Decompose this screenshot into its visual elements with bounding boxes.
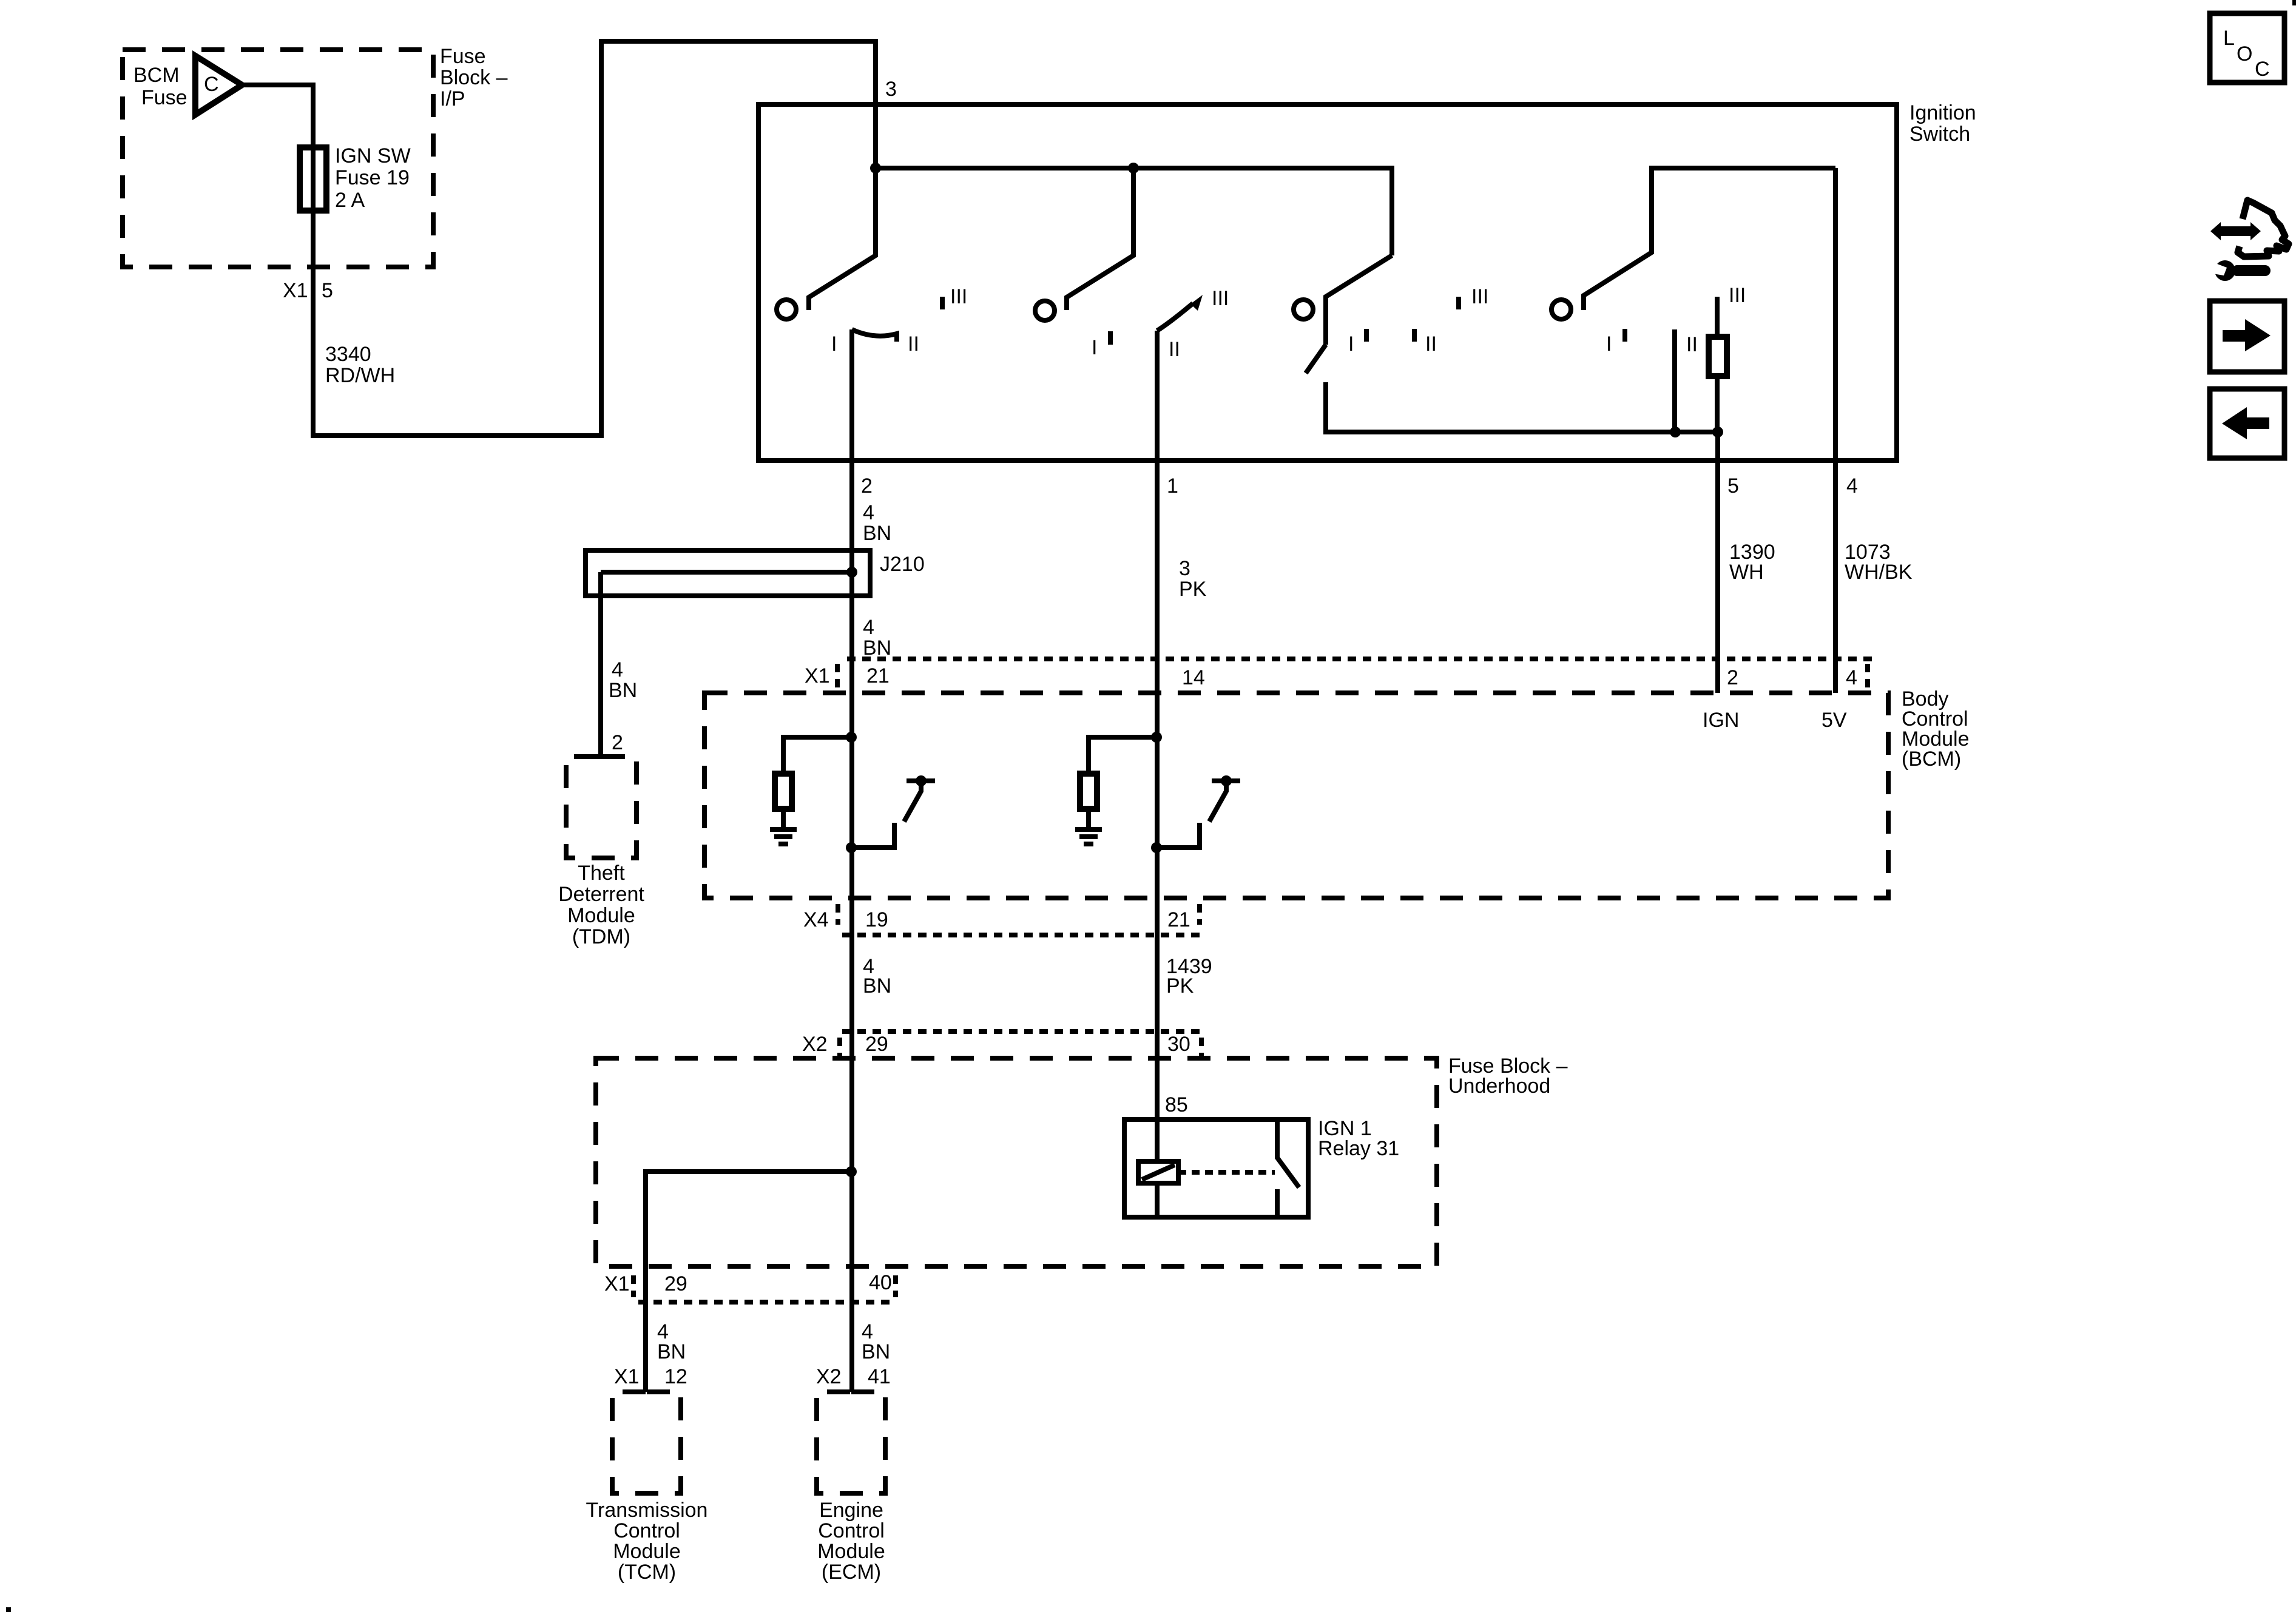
svg-text:Module: Module [613, 1540, 681, 1563]
label IGN SW Fuse 19 2 A [335, 144, 411, 212]
diagnostic icon connector outline [2238, 200, 2289, 257]
label wire 4 BN (below J210) [863, 616, 891, 660]
svg-text:3: 3 [885, 78, 897, 101]
pole 1 arm [809, 168, 876, 310]
BCM connector X4 row [842, 933, 1201, 937]
ignition switch internal bus wire [876, 168, 1392, 255]
wire ignition pin 2 down to ECM (4 BN circuit) [849, 329, 854, 1392]
fuse IGN SW Fuse 19 [300, 147, 326, 211]
BCM Fuse feed triangle C [195, 56, 242, 115]
ground BCM 1 [770, 829, 797, 844]
svg-text:(TCM): (TCM) [618, 1561, 676, 1584]
X1 fuse block bottom bracket right [893, 1275, 898, 1297]
pole 4 position II contact wire [1672, 329, 1677, 432]
svg-text:29: 29 [865, 1033, 888, 1056]
svg-text:X1: X1 [805, 664, 830, 687]
node bus-pin3 [870, 163, 881, 174]
svg-text:5V: 5V [1822, 709, 1847, 732]
svg-text:I: I [1092, 336, 1097, 359]
svg-text:Control: Control [818, 1519, 885, 1542]
svg-text:21: 21 [1167, 908, 1190, 931]
svg-text:Transmission: Transmission [586, 1499, 708, 1522]
splice pack J210 [586, 550, 870, 596]
svg-text:BN: BN [863, 636, 891, 660]
svg-text:12: 12 [664, 1365, 687, 1388]
svg-text:BCM: BCM [133, 64, 180, 87]
svg-text:Module: Module [817, 1540, 885, 1563]
X1 bracket right [1865, 664, 1870, 692]
pole 3 contact tick III [1456, 297, 1461, 309]
X2 bracket right [1199, 1038, 1204, 1058]
label wire 1390 WH [1729, 541, 1775, 584]
resistor BCM pullup 2 [1080, 774, 1097, 809]
X4 bracket left [836, 904, 840, 925]
body control module box [704, 693, 1888, 898]
svg-text:RD/WH: RD/WH [325, 364, 395, 387]
label wire 3340 RD/WH [325, 343, 395, 387]
svg-text:1: 1 [1167, 474, 1178, 498]
node J210 splice [846, 567, 857, 578]
label Engine Control Module (ECM) [817, 1499, 885, 1584]
svg-text:I: I [1348, 333, 1354, 356]
engine control module box [817, 1392, 885, 1493]
X4 bracket right [1197, 904, 1202, 925]
label Body Control Module (BCM) [1902, 687, 1970, 771]
pole 2 arm [1067, 168, 1133, 310]
pole 4 pivot [1551, 300, 1571, 319]
stray dot bottom left [6, 1607, 11, 1612]
relay actuation link (dashed) [1178, 1170, 1275, 1175]
ground BCM 2 [1075, 829, 1102, 844]
J210 internal bus bar [601, 570, 852, 575]
svg-text:IGN: IGN [1703, 709, 1739, 732]
svg-text:2: 2 [861, 474, 873, 498]
svg-text:C: C [204, 73, 219, 96]
svg-text:J210: J210 [880, 553, 925, 576]
label ECM connector X2 pin 41 [816, 1365, 891, 1388]
label IGN 1 Relay 31 [1318, 1117, 1399, 1160]
svg-text:3340: 3340 [325, 343, 371, 366]
pole 1 contact arc to pin 2 [852, 329, 897, 342]
svg-text:2: 2 [1727, 666, 1738, 689]
node BCM sense switch 2 [1151, 842, 1162, 853]
BCM sense switch 2 contact [1156, 823, 1200, 848]
BCM sense switch 1 contact [851, 823, 894, 848]
svg-text:II: II [1686, 333, 1698, 356]
svg-text:PK: PK [1179, 578, 1207, 601]
svg-text:X1: X1 [604, 1272, 630, 1295]
relay coil lower wire [1155, 1183, 1160, 1217]
svg-text:29: 29 [664, 1272, 687, 1295]
svg-text:X4: X4 [803, 908, 829, 931]
pole 1 pivot [777, 300, 796, 319]
label wire 3 PK [1179, 557, 1207, 601]
resistor in ignition switch (START position) [1709, 337, 1727, 376]
TDM terminal bar [593, 754, 611, 759]
connector X1 pin 5 labels [283, 279, 333, 302]
label wire 4 BN (above J210) [863, 501, 891, 545]
BCM sense switch 1 bar [907, 778, 935, 783]
svg-text:4: 4 [863, 616, 874, 639]
pole 1 contact tick III [940, 297, 945, 309]
right arrow icon [2210, 301, 2284, 372]
svg-text:Deterrent: Deterrent [558, 883, 644, 906]
pole 3 lower contact wire to pin 5 junction [1326, 382, 1718, 432]
svg-text:4: 4 [612, 658, 623, 681]
svg-text:I: I [831, 333, 837, 356]
svg-text:3: 3 [1179, 557, 1190, 580]
svg-text:41: 41 [868, 1365, 891, 1388]
svg-text:I/P: I/P [440, 87, 465, 110]
svg-text:C: C [2255, 58, 2270, 81]
label BCM Fuse [133, 64, 187, 109]
svg-text:2 A: 2 A [335, 189, 365, 212]
diagnostic icon double arrow [2210, 222, 2261, 240]
svg-text:Underhood: Underhood [1448, 1075, 1550, 1098]
pole 3 pivot [1294, 300, 1313, 319]
svg-text:4: 4 [1846, 474, 1858, 498]
svg-text:BN: BN [862, 1340, 890, 1363]
svg-text:X2: X2 [816, 1365, 842, 1388]
pole 3 blade (open) [1306, 345, 1326, 373]
label Fuse Block - I/P [440, 45, 508, 110]
X1 bracket left [835, 664, 840, 692]
svg-text:III: III [1729, 284, 1746, 307]
BCM sense switch 2 blade [1209, 783, 1226, 822]
wire J210 to TDM (4 BN) [598, 572, 603, 757]
node bus-pole2 [1128, 163, 1139, 174]
label wire 1073 WH/BK [1845, 541, 1913, 584]
svg-text:14: 14 [1182, 666, 1205, 689]
LOC icon letters [2223, 27, 2270, 81]
diagnostic icon wrench [2209, 260, 2271, 281]
svg-text:Ignition: Ignition [1909, 101, 1976, 124]
svg-text:(ECM): (ECM) [822, 1561, 881, 1584]
resistor BCM pullup 1 [775, 774, 792, 809]
svg-text:4: 4 [1846, 666, 1857, 689]
svg-text:II: II [1425, 333, 1437, 356]
wire ignition pin 5 to BCM (1390 WH) [1715, 432, 1720, 693]
svg-text:III: III [1212, 287, 1229, 310]
pole 3 arm [1326, 255, 1392, 345]
svg-text:5: 5 [322, 279, 333, 302]
node fuse block branch [846, 1166, 857, 1177]
BCM sense switch 1 blade [904, 783, 921, 822]
svg-text:5: 5 [1727, 474, 1739, 498]
node BCM pullup 1 [846, 732, 857, 743]
pole 2 contact tick [1108, 331, 1113, 345]
svg-text:I: I [1606, 333, 1612, 356]
wire resistor 2 to ground [1086, 809, 1091, 827]
wire branch to TCM [646, 1172, 851, 1392]
theft deterrent module box [566, 757, 636, 858]
label wire 4 BN (TDM branch) [609, 658, 637, 702]
svg-text:40: 40 [869, 1271, 892, 1294]
svg-text:2: 2 [612, 731, 623, 754]
svg-text:Block –: Block – [440, 66, 508, 89]
node contact-III pole 4 [1712, 427, 1723, 437]
svg-text:Module: Module [567, 904, 635, 927]
svg-text:X2: X2 [802, 1033, 828, 1056]
svg-text:(TDM): (TDM) [572, 925, 630, 948]
transmission control module box [612, 1392, 681, 1493]
svg-text:II: II [1169, 338, 1180, 361]
svg-text:30: 30 [1167, 1033, 1190, 1056]
pole 4 position III contact wire [1715, 297, 1720, 337]
label Theft Deterrent Module (TDM) [558, 862, 644, 948]
svg-text:Fuse 19: Fuse 19 [335, 166, 410, 189]
node BCM sense switch 1 [846, 842, 857, 853]
svg-text:Fuse: Fuse [141, 86, 187, 109]
X2 bracket left [837, 1038, 842, 1058]
pole 2 pivot [1035, 301, 1055, 320]
svg-text:WH/BK: WH/BK [1845, 561, 1913, 584]
svg-text:21: 21 [866, 664, 890, 687]
label TCM connector X1 pin 12 [614, 1365, 687, 1388]
svg-text:(BCM): (BCM) [1902, 748, 1961, 771]
label wire 4 BN (TCM) [657, 1320, 686, 1363]
relay coil [1138, 1161, 1178, 1183]
svg-text:85: 85 [1165, 1093, 1188, 1116]
label Fuse Block - Underhood [1448, 1055, 1568, 1098]
fuse block underhood box [596, 1058, 1437, 1266]
node switch 2 top [1221, 775, 1232, 786]
node contact-II pole 4 [1670, 427, 1681, 437]
wire ignition pin 4 to BCM (1073 WH/BK) [1833, 168, 1838, 693]
label wire 4 BN (pin19) [863, 955, 891, 998]
label wire 1439 PK [1166, 955, 1212, 998]
pole 2 start contact curve with arrow [1157, 303, 1193, 331]
svg-text:Control: Control [613, 1519, 680, 1542]
svg-text:BN: BN [609, 679, 637, 702]
wire BCM pullup 1 [783, 737, 851, 774]
fuse block X2 connector row [842, 1029, 1201, 1034]
fuse block I/P dashed box [123, 50, 433, 267]
label Ignition Switch [1909, 101, 1976, 146]
svg-text:Engine: Engine [819, 1499, 883, 1522]
svg-text:Fuse: Fuse [440, 45, 486, 68]
LOC icon box [2210, 13, 2284, 83]
svg-text:19: 19 [865, 908, 888, 931]
svg-text:PK: PK [1166, 974, 1194, 998]
wire from BCM fuse through fuse and loop to ignition switch pin 3 [242, 41, 876, 436]
left arrow icon [2210, 389, 2284, 458]
pole 4 contact tick [1622, 329, 1627, 342]
corner mark [2292, 0, 2296, 5]
svg-text:Theft: Theft [578, 862, 625, 885]
svg-text:O: O [2237, 42, 2252, 66]
pole 3 contact tick a [1364, 329, 1369, 342]
svg-text:X1: X1 [614, 1365, 640, 1388]
pole 4 arm to pin 4 [1584, 168, 1835, 310]
svg-text:Relay 31: Relay 31 [1318, 1137, 1399, 1160]
label wire 4 BN (ECM) [862, 1320, 890, 1363]
svg-text:WH: WH [1729, 561, 1764, 584]
svg-text:BN: BN [863, 974, 891, 998]
fuse block X1 connector row [638, 1300, 894, 1305]
svg-text:IGN SW: IGN SW [335, 144, 411, 167]
label Transmission Control Module (TCM) [586, 1499, 708, 1584]
relay switch [1277, 1119, 1299, 1187]
svg-text:III: III [1471, 285, 1488, 308]
IGN 1 Relay 31 box [1124, 1119, 1308, 1217]
svg-text:4: 4 [863, 501, 874, 524]
node BCM pullup 2 [1151, 732, 1162, 743]
svg-text:BN: BN [657, 1340, 686, 1363]
svg-text:Switch: Switch [1909, 123, 1970, 146]
svg-text:L: L [2223, 27, 2235, 50]
wire ignition pin 1 down to IGN 1 relay coil (3 PK / 1439 PK circuit) [1155, 331, 1160, 1161]
ignition switch box [758, 104, 1897, 461]
wire BCM pullup 2 [1089, 737, 1156, 774]
svg-text:X1: X1 [283, 279, 308, 302]
svg-text:II: II [908, 333, 919, 356]
svg-text:III: III [950, 285, 967, 308]
svg-text:BN: BN [863, 522, 891, 545]
X1 fuse block bottom bracket left [631, 1275, 636, 1297]
BCM sense switch 2 bar [1212, 778, 1240, 783]
node switch 1 top [916, 775, 927, 786]
BCM connector X1 row [847, 657, 1872, 661]
wire resistor to pin 5 junction [1715, 376, 1720, 432]
wire resistor 1 to ground [781, 809, 786, 827]
pole 3 contact tick b [1412, 329, 1417, 342]
